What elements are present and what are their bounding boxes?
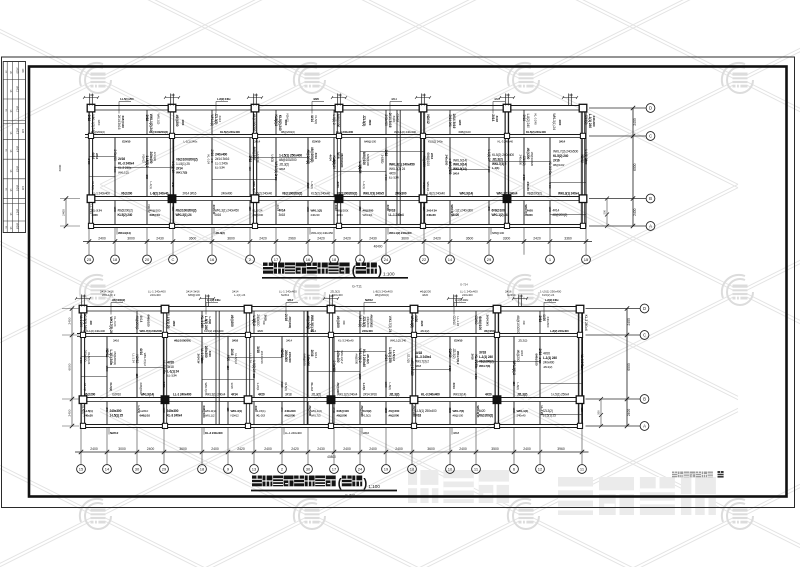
svg-text:#6@200: #6@200 xyxy=(389,409,400,413)
svg-text:6#8@100: 6#8@100 xyxy=(362,152,366,165)
svg-text:N2#12: N2#12 xyxy=(280,349,284,358)
svg-text:2#14 3#16: 2#14 3#16 xyxy=(363,393,377,397)
svg-text:#6@200: #6@200 xyxy=(389,413,400,417)
svg-text:JZL3(2): JZL3(2) xyxy=(420,329,429,333)
svg-text:110: 110 xyxy=(422,207,426,212)
svg-text:2#16: 2#16 xyxy=(471,354,475,361)
svg-text:3#18: 3#18 xyxy=(145,115,149,122)
svg-text:JZL3(2): JZL3(2) xyxy=(518,338,527,342)
svg-text:2#16: 2#16 xyxy=(284,314,288,321)
svg-text:WKL1(2): WKL1(2) xyxy=(358,316,362,328)
svg-text:#8@100/: #8@100/ xyxy=(553,163,564,167)
svg-text:#8@100/200: #8@100/200 xyxy=(279,158,297,162)
svg-text:KL-3 240x400: KL-3 240x400 xyxy=(421,393,440,397)
bottom(longitudinal) plan xyxy=(75,294,649,473)
svg-text:2#14 3#: 2#14 3# xyxy=(427,209,438,213)
svg-text:1200: 1200 xyxy=(97,120,101,126)
svg-text:1-L5(1) 250x4: 1-L5(1) 250x4 xyxy=(551,393,569,397)
svg-text:240x300: 240x300 xyxy=(110,409,122,413)
svg-text:14: 14 xyxy=(448,257,453,262)
svg-text:6#8@100: 6#8@100 xyxy=(252,147,256,160)
svg-text:WKL7(3: WKL7(3 xyxy=(204,383,208,393)
svg-text:G2#10: G2#10 xyxy=(448,349,452,358)
svg-text:#6@200: #6@200 xyxy=(363,209,374,213)
svg-text:G2#10: G2#10 xyxy=(122,139,131,143)
svg-text:240x400: 240x400 xyxy=(384,115,388,127)
svg-text:2400: 2400 xyxy=(68,317,72,324)
svg-text:A: A xyxy=(359,257,362,262)
svg-text:6000: 6000 xyxy=(58,164,62,171)
top(transverse) plan xyxy=(83,93,655,264)
svg-text:3600: 3600 xyxy=(162,408,166,414)
inner frame xyxy=(29,67,787,497)
svg-text:240: 240 xyxy=(518,294,523,298)
svg-text:240: 240 xyxy=(89,321,93,326)
svg-text:46400: 46400 xyxy=(374,245,383,249)
svg-text:1800: 1800 xyxy=(306,207,310,213)
svg-text:2430: 2430 xyxy=(317,447,325,451)
svg-text:#8@200(2): #8@200(2) xyxy=(306,150,310,165)
svg-text:WKL1(2): WKL1(2) xyxy=(118,170,129,174)
svg-text:KL5(2) 240: KL5(2) 240 xyxy=(553,154,568,158)
svg-text:1:100: 1:100 xyxy=(383,272,395,277)
svg-text:#8@200(2: #8@200(2 xyxy=(370,315,374,328)
svg-text:4#14: 4#14 xyxy=(553,209,560,213)
svg-text:N2#12: N2#12 xyxy=(110,431,119,435)
bottom(longitudinal) third beam line xyxy=(81,397,583,399)
svg-text:25: 25 xyxy=(87,257,92,262)
svg-text:#8@100/20: #8@100/20 xyxy=(340,153,344,168)
svg-text:#8@200: #8@200 xyxy=(253,213,264,217)
svg-text:13: 13 xyxy=(252,467,257,472)
svg-text:KL-3 240: KL-3 240 xyxy=(200,316,204,328)
svg-text:17: 17 xyxy=(274,257,279,262)
svg-text:10: 10 xyxy=(448,467,453,472)
svg-text:2400: 2400 xyxy=(384,175,388,181)
svg-text:L-1(1): L-1(1) xyxy=(362,182,366,189)
svg-text:JZL3(2): JZL3(2) xyxy=(584,115,588,125)
svg-text:#6@200: #6@200 xyxy=(285,413,296,417)
svg-text:JZL3(2): JZL3(2) xyxy=(517,393,527,397)
svg-text:3#18: 3#18 xyxy=(415,351,422,355)
svg-text:2400: 2400 xyxy=(284,120,288,126)
svg-text:L-8(2) 240x40: L-8(2) 240x40 xyxy=(427,192,445,196)
svg-text:2#16: 2#16 xyxy=(538,316,542,323)
svg-text:#8@200(2): #8@200(2) xyxy=(91,130,105,134)
svg-text:KL-3 2: KL-3 2 xyxy=(257,413,266,417)
svg-text:2400: 2400 xyxy=(147,447,155,451)
bottom(longitudinal) interior beam verticals xyxy=(106,337,108,398)
svg-text:3600: 3600 xyxy=(466,237,474,241)
svg-text:WKL7(3): WKL7(3) xyxy=(479,364,490,368)
svg-text:WKL7(3): WKL7(3) xyxy=(176,171,187,175)
svg-text:LL-1 240x400: LL-1 240x400 xyxy=(285,431,302,435)
svg-text:L-8(2) 240x40: L-8(2) 240x40 xyxy=(150,192,169,196)
svg-text:#6@200: #6@200 xyxy=(516,350,520,362)
svg-text:LL-1 240x: LL-1 240x xyxy=(215,161,228,165)
svg-text:29: 29 xyxy=(162,467,167,472)
svg-text:#8@100/200(: #8@100/200( xyxy=(174,338,191,342)
bottom(longitudinal) bottom chord xyxy=(81,424,583,426)
svg-text:WKL1(2): WKL1(2) xyxy=(311,209,323,213)
svg-text:N2#12: N2#12 xyxy=(105,349,109,358)
svg-text:4#20: 4#20 xyxy=(336,182,340,189)
svg-text:WKL9(14): WKL9(14) xyxy=(118,231,131,235)
svg-text:WKL7(3) 2: WKL7(3) 2 xyxy=(415,360,429,364)
svg-text:240: 240 xyxy=(505,93,510,97)
svg-text:1800: 1800 xyxy=(584,159,588,165)
svg-text:110: 110 xyxy=(226,408,230,413)
svg-text:WKL3(1) 240x450: WKL3(1) 240x450 xyxy=(389,163,415,167)
svg-text:A: A xyxy=(649,224,652,229)
svg-text:KL5(2) 240x400: KL5(2) 240x400 xyxy=(204,329,224,333)
svg-text:(: ( xyxy=(352,264,356,278)
svg-text:15: 15 xyxy=(79,467,84,472)
svg-text:110: 110 xyxy=(358,167,362,172)
svg-text:JZL3(2): JZL3(2) xyxy=(153,152,157,161)
svg-text:#6@200: #6@200 xyxy=(422,156,426,168)
svg-text:240x300: 240x300 xyxy=(445,155,449,166)
svg-text:#8@100/200(2): #8@100/200(2) xyxy=(149,130,168,134)
svg-text:6#8@100: 6#8@100 xyxy=(188,293,201,297)
svg-text:JZL3(2): JZL3(2) xyxy=(215,231,225,235)
svg-text:240: 240 xyxy=(262,321,266,326)
svg-text:2#16: 2#16 xyxy=(232,338,239,342)
title block strip xyxy=(3,62,25,233)
outer sheet border xyxy=(2,57,795,508)
svg-text:4#14: 4#14 xyxy=(231,393,238,397)
svg-text:40800: 40800 xyxy=(327,455,336,459)
svg-text:240: 240 xyxy=(105,408,109,413)
svg-text:3600: 3600 xyxy=(280,382,284,388)
svg-text:N2#12: N2#12 xyxy=(142,155,146,164)
svg-text:3#18: 3#18 xyxy=(479,351,486,355)
svg-text:4#20: 4#20 xyxy=(494,97,500,101)
svg-text:JZL3(2): JZL3(2) xyxy=(492,157,503,161)
svg-text:WKL1(2): WKL1(2) xyxy=(210,115,214,127)
svg-text:600: 600 xyxy=(252,374,256,379)
svg-text:3500: 3500 xyxy=(491,447,499,451)
svg-text:WKL1(2) 24: WKL1(2) 24 xyxy=(492,213,508,217)
svg-text:240: 240 xyxy=(171,183,175,188)
svg-text:110: 110 xyxy=(226,366,230,371)
svg-text:2#14: 2#14 xyxy=(453,172,460,176)
top(transverse) third beam line xyxy=(89,196,586,198)
svg-text:2430: 2430 xyxy=(369,237,377,241)
svg-text:6#8@100: 6#8@100 xyxy=(303,354,307,366)
svg-text:1800: 1800 xyxy=(200,358,204,364)
svg-text:2#16: 2#16 xyxy=(430,153,434,160)
svg-text:WKL1(2) 240: WKL1(2) 240 xyxy=(390,338,407,342)
svg-text:240x300: 240x300 xyxy=(519,155,523,166)
svg-text:KL-3 240x4: KL-3 240x4 xyxy=(584,315,588,331)
svg-text:2#14: 2#14 xyxy=(254,139,261,143)
svg-text:#6@200: #6@200 xyxy=(84,393,95,397)
svg-text:A: A xyxy=(643,424,646,429)
svg-text:2420: 2420 xyxy=(259,237,267,241)
svg-text:2400: 2400 xyxy=(558,120,562,126)
svg-text:600: 600 xyxy=(358,207,362,212)
svg-text:N2#12: N2#12 xyxy=(231,413,240,417)
svg-text:600: 600 xyxy=(342,321,346,326)
svg-text:3000: 3000 xyxy=(127,237,135,241)
svg-text:3#18: 3#18 xyxy=(256,346,260,353)
svg-text:KL5(2) 240x400: KL5(2) 240x400 xyxy=(526,130,546,134)
svg-text:3600: 3600 xyxy=(113,167,117,173)
svg-text:WKL7(3) 2: WKL7(3) 2 xyxy=(492,162,507,166)
svg-text:4#20: 4#20 xyxy=(543,352,550,356)
svg-text:2420: 2420 xyxy=(274,175,278,181)
svg-text:WKL3(1: WKL3(1 xyxy=(252,182,256,193)
svg-text:2400: 2400 xyxy=(459,447,467,451)
svg-text:#8@200(2): #8@200(2) xyxy=(553,213,568,217)
svg-text:#6@200: #6@200 xyxy=(308,406,312,417)
svg-text:2420: 2420 xyxy=(548,183,552,189)
svg-text:(: ( xyxy=(338,477,342,490)
svg-text:128: 128 xyxy=(21,69,24,74)
svg-text:240x400: 240x400 xyxy=(215,153,227,157)
svg-text:WKL3(1) 240x4: WKL3(1) 240x4 xyxy=(205,393,226,397)
svg-text:2400: 2400 xyxy=(627,409,631,417)
svg-text:L-8(2): L-8(2) xyxy=(208,317,212,325)
svg-text:#8@100/: #8@100/ xyxy=(360,406,364,417)
svg-text:#8@200(2): #8@200(2) xyxy=(112,298,125,302)
svg-text:4#14: 4#14 xyxy=(452,383,456,390)
svg-text:2#16: 2#16 xyxy=(118,157,125,161)
svg-text:240x400: 240x400 xyxy=(221,192,233,196)
svg-text:L-8(2) 240x: L-8(2) 240x xyxy=(545,298,559,302)
svg-text:L-1(1) 240x: L-1(1) 240x xyxy=(109,350,113,366)
svg-text:4#14: 4#14 xyxy=(314,352,318,359)
svg-text:B: B xyxy=(643,397,646,402)
top(transverse) right axis lines and bubbles xyxy=(589,107,646,109)
svg-text:#8@200(2): #8@200(2) xyxy=(375,293,389,297)
svg-text:3600: 3600 xyxy=(427,447,435,451)
top(transverse) grid axis bubbles xyxy=(85,255,94,264)
svg-text:4#20: 4#20 xyxy=(257,329,264,333)
svg-text:LL-1 24: LL-1 24 xyxy=(132,354,136,364)
svg-text:240x40: 240x40 xyxy=(517,413,526,417)
svg-text:2400: 2400 xyxy=(369,447,377,451)
svg-text:WKL9(14: WKL9(14 xyxy=(476,406,480,418)
svg-text:zh14: zh14 xyxy=(16,146,20,153)
svg-text:240x300: 240x300 xyxy=(592,116,596,127)
svg-text:G2#10: G2#10 xyxy=(312,139,321,143)
svg-text:6000: 6000 xyxy=(633,163,637,171)
svg-text:KL-3 240x: KL-3 240x xyxy=(118,166,132,170)
svg-text:#8@100/200(2): #8@100/200(2) xyxy=(337,192,357,196)
svg-text:4#14: 4#14 xyxy=(139,348,143,355)
svg-text:22: 22 xyxy=(422,257,427,262)
svg-text:4#14: 4#14 xyxy=(329,155,333,162)
svg-text:240x400: 240x400 xyxy=(149,152,153,164)
svg-text:2#14: 2#14 xyxy=(286,338,293,342)
svg-text:2400: 2400 xyxy=(474,374,478,380)
svg-text:KL5(2) 240x: KL5(2) 240x xyxy=(428,139,443,143)
svg-text:L-1(1): L-1(1) xyxy=(271,155,275,162)
svg-text:WKL7(3): WKL7(3) xyxy=(524,205,528,216)
svg-text:2400: 2400 xyxy=(633,208,637,216)
svg-text:JZL3(2): JZL3(2) xyxy=(452,348,456,358)
svg-text:#8@200(2: #8@200(2 xyxy=(306,316,310,330)
svg-text:1-L5(1): 1-L5(1) xyxy=(381,155,385,164)
svg-text:zh11: zh11 xyxy=(16,86,20,92)
svg-text:KL5(2) 240x400: KL5(2) 240x400 xyxy=(220,130,240,134)
bottom plan left vertical dimension xyxy=(62,306,79,428)
svg-text:240x30: 240x30 xyxy=(427,213,437,217)
svg-text:N2#12: N2#12 xyxy=(147,205,151,214)
svg-text:240: 240 xyxy=(487,207,491,212)
bottom(longitudinal) risers above top chord xyxy=(81,295,83,307)
svg-text:1800: 1800 xyxy=(172,321,176,327)
svg-text:WKL1(2) 240x400: WKL1(2) 240x400 xyxy=(394,130,416,134)
svg-text:KL-3 240: KL-3 240 xyxy=(534,114,538,125)
svg-text:#8@200(2): #8@200(2) xyxy=(118,209,133,213)
svg-text:WKL7(3) 240x500: WKL7(3) 240x500 xyxy=(140,329,163,333)
svg-text:L-1(1) 240: L-1(1) 240 xyxy=(543,356,557,360)
svg-text:240x30: 240x30 xyxy=(84,413,94,417)
svg-text:1200: 1200 xyxy=(358,374,362,380)
svg-text:2420: 2420 xyxy=(420,321,424,327)
svg-text:L-1(1) 24: L-1(1) 24 xyxy=(234,293,246,297)
svg-text:G2#10: G2#10 xyxy=(112,393,121,397)
svg-text:240: 240 xyxy=(421,93,426,97)
svg-text:#8@100/200(2): #8@100/200(2) xyxy=(176,158,198,162)
svg-text:240x300: 240x300 xyxy=(546,317,550,328)
svg-text:LL-1 24: LL-1 24 xyxy=(167,374,177,378)
svg-text:JZL3(2): JZL3(2) xyxy=(311,393,321,397)
top plan title xyxy=(262,263,408,289)
svg-text:#8@100/200: #8@100/200 xyxy=(516,315,520,333)
svg-text:WKL3(1) 240x450: WKL3(1) 240x450 xyxy=(215,209,240,213)
svg-text:WKL3(1): WKL3(1) xyxy=(231,409,243,413)
svg-text:KL5(2): KL5(2) xyxy=(109,383,113,392)
svg-text:WKL7(3) 240x500: WKL7(3) 240x500 xyxy=(553,150,578,154)
svg-text:6000: 6000 xyxy=(627,363,631,371)
svg-text:2#16: 2#16 xyxy=(363,431,370,435)
svg-text:LL-1 24: LL-1 24 xyxy=(215,166,225,170)
svg-text:2#14 3#: 2#14 3# xyxy=(212,205,216,215)
svg-text:128: 128 xyxy=(21,186,24,191)
svg-text:2400: 2400 xyxy=(90,447,98,451)
svg-text:2#16: 2#16 xyxy=(230,349,234,356)
top(transverse) second beam line xyxy=(85,134,586,136)
svg-text:KL5(2) 2: KL5(2) 2 xyxy=(274,115,278,127)
bottom(longitudinal) columns xyxy=(79,305,87,313)
svg-text:2#14 3#16: 2#14 3#16 xyxy=(183,192,197,196)
svg-text:2400: 2400 xyxy=(448,159,452,165)
svg-text:110: 110 xyxy=(135,374,139,379)
svg-text:#6@200: #6@200 xyxy=(355,354,359,365)
svg-text:3#18: 3#18 xyxy=(415,364,422,368)
svg-text:L-1(1) 240x: L-1(1) 240x xyxy=(455,298,469,302)
svg-text:6#8@10: 6#8@10 xyxy=(150,213,161,217)
svg-text:2420: 2420 xyxy=(448,366,452,372)
bottom(longitudinal) right edge beam xyxy=(582,307,584,428)
svg-text:240: 240 xyxy=(337,93,342,97)
bottom(longitudinal) partition beams xyxy=(107,367,164,369)
svg-text:L-1(1) 24: L-1(1) 24 xyxy=(171,162,175,174)
svg-text:4#20: 4#20 xyxy=(254,406,258,413)
svg-text:2400: 2400 xyxy=(87,159,91,165)
svg-text:WKL1(2) 24: WKL1(2) 24 xyxy=(389,167,405,171)
svg-text:#8@100/20: #8@100/20 xyxy=(410,361,414,376)
svg-text:6000: 6000 xyxy=(68,363,72,370)
svg-text:2#14: 2#14 xyxy=(559,139,566,143)
svg-text:240x400: 240x400 xyxy=(543,361,555,365)
svg-text:240x300: 240x300 xyxy=(167,409,179,413)
svg-text:C: C xyxy=(172,257,175,262)
svg-text:2420: 2420 xyxy=(343,237,351,241)
svg-text:2420: 2420 xyxy=(162,382,166,388)
svg-text:WKL3(1) 24: WKL3(1) 24 xyxy=(176,213,192,217)
svg-text:240x400: 240x400 xyxy=(366,317,370,328)
svg-text:240x400: 240x400 xyxy=(150,293,161,297)
svg-text:zh10: zh10 xyxy=(16,67,20,74)
bottom(longitudinal) right vertical dimension xyxy=(626,309,628,427)
svg-text:240x300: 240x300 xyxy=(284,350,288,362)
svg-text:500: 500 xyxy=(597,410,601,415)
svg-text:KL-3 240x400: KL-3 240x400 xyxy=(205,431,223,435)
svg-text:1200: 1200 xyxy=(548,207,552,213)
svg-text:#8@100: #8@100 xyxy=(453,413,464,417)
top(transverse) beam annotations xyxy=(118,102,120,114)
svg-text:6#8@100: 6#8@100 xyxy=(366,154,370,166)
svg-text:4#14: 4#14 xyxy=(287,298,293,302)
bottom(longitudinal) top chord xyxy=(81,306,583,308)
svg-text:zh18: zh18 xyxy=(16,223,20,230)
svg-text:2420: 2420 xyxy=(291,447,299,451)
svg-text:1800: 1800 xyxy=(332,159,336,165)
svg-text:3#18: 3#18 xyxy=(522,115,526,122)
svg-text:2400: 2400 xyxy=(264,447,272,451)
top(transverse) risers above top chord xyxy=(89,94,91,106)
svg-text:#8@100/: #8@100/ xyxy=(412,406,416,417)
svg-text:WKL1(2): WKL1(2) xyxy=(517,409,529,413)
svg-text:#8@200: #8@200 xyxy=(337,413,348,417)
svg-text:4#20: 4#20 xyxy=(167,361,174,365)
svg-text:6#8@100: 6#8@100 xyxy=(121,116,125,129)
svg-text:LL-1 24: LL-1 24 xyxy=(540,406,544,416)
svg-text:240: 240 xyxy=(253,93,258,97)
svg-text:D: D xyxy=(649,106,652,111)
svg-text:JZL3(2): JZL3(2) xyxy=(279,163,289,167)
bottom(longitudinal) second beam line xyxy=(77,333,583,335)
svg-text:3300: 3300 xyxy=(503,237,511,241)
svg-text:3#18: 3#18 xyxy=(495,116,499,123)
bottom plan labels above top chord xyxy=(100,283,562,298)
svg-text:600: 600 xyxy=(248,207,252,212)
svg-text:3#18: 3#18 xyxy=(453,431,460,435)
svg-text:LL-1 24: LL-1 24 xyxy=(89,205,93,215)
svg-text:JZL3(2): JZL3(2) xyxy=(407,354,411,363)
svg-text:WKL7(3): WKL7(3) xyxy=(453,409,465,413)
svg-text:2#14 3#1: 2#14 3#1 xyxy=(448,115,452,127)
svg-text:L-1(1) 240x: L-1(1) 240x xyxy=(184,139,198,143)
svg-text:3600: 3600 xyxy=(179,447,187,451)
svg-text:6#8@100: 6#8@100 xyxy=(535,354,539,366)
svg-text:2400: 2400 xyxy=(538,358,542,364)
svg-text:1-L5(1) 25: 1-L5(1) 25 xyxy=(166,314,170,329)
svg-text:WKL9(14): WKL9(14) xyxy=(453,158,467,162)
svg-text:19: 19 xyxy=(384,467,389,472)
svg-text:2400: 2400 xyxy=(523,447,531,451)
svg-text:16: 16 xyxy=(210,257,215,262)
svg-text:2400: 2400 xyxy=(343,447,351,451)
svg-text:L-1(1) 240x: L-1(1) 240x xyxy=(207,298,221,302)
svg-text:WKL1(2) 2: WKL1(2) 2 xyxy=(102,293,116,297)
svg-text:WKL3(1: WKL3(1 xyxy=(363,213,373,217)
